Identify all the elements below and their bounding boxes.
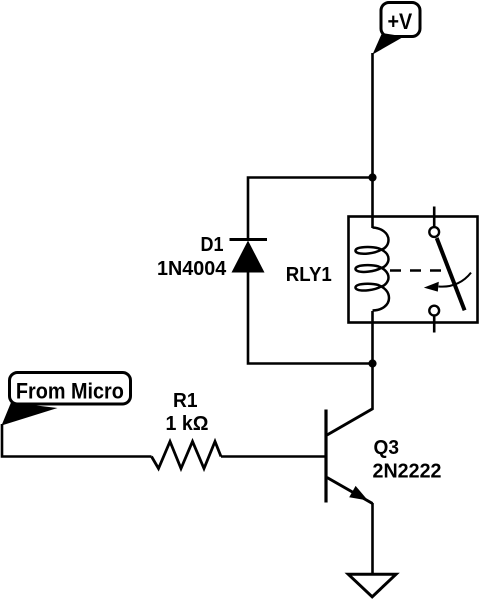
wire coil to node B [371, 311, 374, 364]
svg-text:+V: +V [387, 9, 412, 34]
svg-text:R1: R1 [173, 390, 198, 412]
relay switch contact bottom [429, 306, 439, 316]
svg-text:1 kΩ: 1 kΩ [166, 413, 209, 435]
relay RLY1 box [349, 217, 478, 323]
relay actuation dashed link [390, 269, 441, 271]
svg-text:RLY1: RLY1 [286, 264, 332, 286]
ground [348, 574, 396, 597]
wire emitter to ground [371, 503, 374, 574]
svg-text:1N4004: 1N4004 [157, 258, 227, 280]
wire +V to node A [371, 53, 374, 178]
svg-text:2N2222: 2N2222 [373, 460, 442, 482]
transistor Q3 [326, 409, 373, 504]
relay actuation arrow [424, 273, 471, 292]
relay switch contact top [429, 227, 439, 237]
input flag From Micro [2, 373, 131, 426]
diode D1 [230, 240, 268, 273]
wire resistor to base [221, 455, 326, 458]
relay switch blade [437, 238, 465, 310]
wire node A to diode branch [248, 178, 373, 241]
svg-text:Q3: Q3 [374, 437, 400, 459]
svg-text:From Micro: From Micro [16, 379, 124, 404]
wire From Micro to resistor [2, 424, 152, 457]
resistor R1 [152, 442, 222, 469]
svg-text:D1: D1 [201, 234, 224, 256]
wire node A to relay coil [371, 178, 374, 229]
power flag +V [373, 3, 421, 55]
relay coil L [355, 228, 389, 311]
node B junction dot [368, 359, 376, 367]
wire node B to collector [371, 364, 374, 410]
relay switch pin stub top [433, 207, 436, 228]
wire diode to node B [248, 273, 373, 364]
relay switch pin stub bottom [433, 316, 436, 333]
node A junction dot [368, 173, 376, 181]
